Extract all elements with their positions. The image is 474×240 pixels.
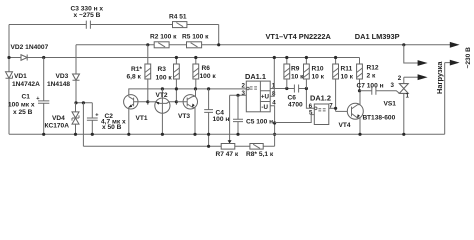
svg-text:VT4: VT4 xyxy=(339,122,351,129)
svg-text:VD2 1N4007: VD2 1N4007 xyxy=(11,44,49,51)
svg-text:10 к: 10 к xyxy=(341,74,354,81)
node C1 bottom xyxy=(42,133,45,136)
resistor R3 xyxy=(156,56,180,105)
svg-text:6,8 к: 6,8 к xyxy=(127,74,142,81)
svg-text:R12: R12 xyxy=(367,64,379,71)
svg-text:3: 3 xyxy=(391,82,395,89)
svg-text:R2 100 к: R2 100 к xyxy=(150,33,177,40)
wire VS1 top to load arrow xyxy=(404,45,419,63)
svg-text:КС170А: КС170А xyxy=(45,122,70,129)
resistor R8 xyxy=(246,144,274,159)
svg-text:VT1–VT4 PN2222A: VT1–VT4 PN2222A xyxy=(266,32,332,41)
pin8 +U wire xyxy=(270,58,274,97)
svg-text:1N4148: 1N4148 xyxy=(47,81,70,88)
svg-text:VD4: VD4 xyxy=(52,115,65,122)
transistor VT2 xyxy=(155,89,177,134)
svg-text:2: 2 xyxy=(242,82,246,89)
node dot R1/wireA xyxy=(146,43,149,46)
transistor VT1 xyxy=(124,95,148,135)
svg-text:R5 100 к: R5 100 к xyxy=(182,33,209,40)
capacitor C5 xyxy=(233,95,273,134)
mains arrow bottom wire xyxy=(445,63,452,135)
capacitor C1 xyxy=(8,58,49,135)
svg-text:100 н: 100 н xyxy=(213,116,230,123)
svg-text:VT1: VT1 xyxy=(136,115,148,122)
node C4 top junction xyxy=(207,87,210,90)
pin4 -U wire xyxy=(270,106,274,147)
left rail xyxy=(8,25,10,135)
capacitor C6 xyxy=(288,85,304,109)
svg-text:Нагрузка: Нагрузка xyxy=(435,61,444,94)
node R9 bottom junction xyxy=(285,87,288,90)
svg-text:DA1 LM393P: DA1 LM393P xyxy=(355,32,400,41)
svg-text:C1: C1 xyxy=(22,94,31,101)
node dot VS1/wireA xyxy=(402,43,405,46)
svg-text:10 к: 10 к xyxy=(312,74,325,81)
load arrow lower (from VS1) xyxy=(404,76,419,78)
node A (VD3/VD4/C2 node wire) xyxy=(76,102,92,104)
svg-text:100 к: 100 к xyxy=(200,73,217,80)
node VT1 emitter xyxy=(127,133,130,136)
resistor R12 xyxy=(357,58,379,91)
resistor R11 xyxy=(333,56,354,112)
svg-text:1: 1 xyxy=(406,93,410,100)
svg-text:~230 В: ~230 В xyxy=(465,47,472,69)
svg-text:DA1.2: DA1.2 xyxy=(310,93,331,102)
mains arrow top (~230V live) xyxy=(450,42,460,48)
node dot C1/wireB xyxy=(42,56,45,59)
svg-text:ВТ138-600: ВТ138-600 xyxy=(363,115,396,122)
wire C2-node to lower line xyxy=(82,103,84,147)
svg-text:VT3: VT3 xyxy=(178,113,190,120)
node VT4 emitter xyxy=(358,133,361,136)
node VT2 emitter xyxy=(161,133,164,136)
node R6/VT3 collector junction xyxy=(194,87,197,90)
svg-text:R6: R6 xyxy=(202,65,211,72)
svg-text:R9: R9 xyxy=(291,65,300,72)
pin7 wire xyxy=(329,107,336,109)
resistor R6 xyxy=(193,56,216,89)
capacitor C7 xyxy=(357,83,400,95)
node dot topwire/wireA xyxy=(217,43,220,46)
op-amp DA1.2 xyxy=(309,93,334,124)
svg-text:R4 51: R4 51 xyxy=(169,13,187,20)
potentiometer R7 xyxy=(216,144,239,159)
resistor R5 xyxy=(182,33,209,47)
diode VD2 xyxy=(11,44,49,60)
top wire xyxy=(9,24,219,26)
transistor VT4 xyxy=(339,91,396,135)
svg-text:2 к: 2 к xyxy=(367,72,376,79)
zener VD1 xyxy=(6,72,41,88)
svg-text:R10: R10 xyxy=(312,65,324,72)
lower feedback line xyxy=(83,145,274,147)
diode VD3 xyxy=(47,45,80,103)
svg-text:VD3: VD3 xyxy=(56,73,69,80)
node C4/rail junction xyxy=(207,133,210,136)
svg-text:2: 2 xyxy=(398,75,402,82)
collector wire (to DA1.1 pin2) xyxy=(129,89,247,96)
pin1 output wire / C6 wire xyxy=(270,89,314,109)
load arrow upper xyxy=(418,60,428,66)
resistor R4 xyxy=(169,13,187,27)
svg-text:R3: R3 xyxy=(158,66,167,73)
capacitor C3 xyxy=(71,6,104,29)
svg-text:1N4742A: 1N4742A xyxy=(12,81,40,88)
resistor R1 xyxy=(127,45,151,105)
node C2 bottom xyxy=(91,133,94,136)
R7 wiper wire with arrow xyxy=(229,95,231,141)
node VD4 bottom xyxy=(74,133,77,136)
zener VD4 xyxy=(45,103,80,135)
svg-text:VT2: VT2 xyxy=(156,92,168,99)
capacitor C2 xyxy=(87,103,126,135)
svg-text:х 50 В: х 50 В xyxy=(102,124,122,131)
svg-text:C5 100 н: C5 100 н xyxy=(246,118,273,125)
wire R1 to VT2 xyxy=(148,101,156,103)
pin3 wire xyxy=(230,94,247,96)
capacitor C4 xyxy=(204,89,229,146)
node dot railB xyxy=(7,56,10,59)
node VT3 emitter xyxy=(193,133,196,136)
node C4/lower line junction xyxy=(207,145,210,148)
svg-text:4700: 4700 xyxy=(288,101,303,108)
triac VS1 xyxy=(384,75,410,135)
svg-text:100 к: 100 к xyxy=(156,75,173,82)
svg-text:+U: +U xyxy=(261,94,270,101)
svg-text:R7 47 к: R7 47 к xyxy=(216,151,239,158)
node dot base VT1/VT2/R1 xyxy=(146,100,149,103)
svg-text:VS1: VS1 xyxy=(384,100,397,107)
svg-text:-U: -U xyxy=(261,104,268,111)
resistor R2 xyxy=(150,33,177,47)
node pin5 junction xyxy=(273,121,276,124)
svg-text:R8* 5,1 к: R8* 5,1 к xyxy=(246,151,274,158)
svg-text:C6: C6 xyxy=(288,94,297,101)
node C5 bottom xyxy=(236,133,239,136)
svg-text:DA1.1: DA1.1 xyxy=(245,72,266,81)
resistor R10 xyxy=(304,56,325,89)
node pin4/rail junction xyxy=(273,133,276,136)
op-amp DA1.1 xyxy=(242,72,277,112)
svg-text:R11: R11 xyxy=(341,65,353,72)
node VT2 top junction xyxy=(161,87,164,90)
bottom rail xyxy=(9,133,445,135)
pin5 wire xyxy=(275,115,315,123)
node R10 bottom junction xyxy=(305,87,308,90)
transistor VT3 xyxy=(176,89,197,134)
svg-text:C7 100 н: C7 100 н xyxy=(357,83,384,90)
wire top-right drop xyxy=(218,25,220,45)
svg-text:100 мк х: 100 мк х xyxy=(8,101,35,108)
svg-text:х 25 В: х 25 В xyxy=(13,109,33,116)
svg-text:х ~275 В: х ~275 В xyxy=(74,12,101,19)
wire A (upper mains wire) xyxy=(76,44,451,46)
resistor R9 xyxy=(284,56,304,89)
node dot base VT3 xyxy=(175,100,178,103)
wire B (12V rail) xyxy=(9,57,360,59)
node VS1 cathode/rail xyxy=(402,133,405,136)
svg-text:10 к: 10 к xyxy=(291,74,304,81)
node R3 junction xyxy=(175,87,178,90)
svg-text:R1*: R1* xyxy=(131,66,142,73)
VT4 base wire xyxy=(336,110,348,112)
svg-text:VD1: VD1 xyxy=(14,73,27,80)
node dot R12/C7/VT4 xyxy=(358,89,361,92)
